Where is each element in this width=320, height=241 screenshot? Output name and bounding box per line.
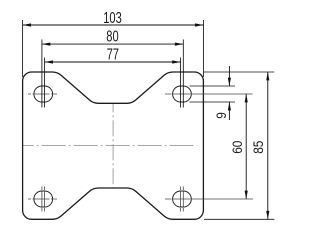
svg-text:85: 85 [250,141,266,154]
svg-text:9: 9 [213,112,229,119]
svg-text:77: 77 [107,46,119,63]
svg-text:60: 60 [229,141,245,154]
svg-text:103: 103 [103,9,122,26]
svg-text:80: 80 [106,28,118,45]
